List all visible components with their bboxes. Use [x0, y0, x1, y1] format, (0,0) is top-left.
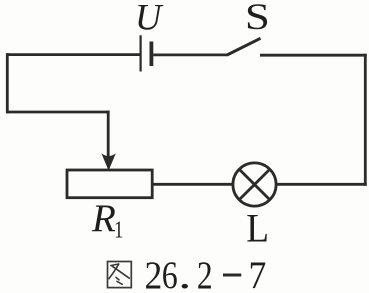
- svg-text:1: 1: [114, 216, 123, 243]
- wire left vertical: [6, 53, 9, 113]
- resistor R1 body: [67, 170, 152, 198]
- switch S blade: [227, 38, 261, 55]
- svg-text:2: 2: [145, 255, 163, 293]
- rheostat slider arrow: [101, 153, 115, 170]
- caption number 7: [249, 255, 267, 293]
- svg-text:S: S: [245, 0, 270, 37]
- wire top-left horizontal: [6, 53, 140, 56]
- label L: [246, 206, 269, 251]
- caption tu inner stroke na: [112, 266, 129, 278]
- caption number 2b: [197, 253, 213, 293]
- caption tu inner stroke pie: [109, 264, 119, 278]
- battery U long thin plate: [140, 35, 142, 71]
- caption number 6: [162, 253, 178, 293]
- caption dash: [223, 274, 241, 277]
- svg-text:2: 2: [197, 253, 213, 293]
- wire right vertical: [364, 54, 367, 186]
- wire mid-left horizontal: [6, 111, 110, 114]
- wire arrow stem vertical: [107, 111, 110, 156]
- wire R1 to lamp: [152, 183, 233, 186]
- lamp X diagonal 2: [239, 169, 270, 200]
- wire battery to switch: [153, 54, 228, 57]
- caption tu dot 2: [117, 281, 122, 284]
- label R1 subscript: [114, 216, 123, 243]
- svg-text:7: 7: [249, 255, 267, 293]
- svg-text:R: R: [91, 197, 116, 240]
- svg-text:U: U: [135, 0, 164, 38]
- caption period: [178, 254, 191, 293]
- battery U short thick plate: [149, 42, 153, 67]
- wire lamp to right: [276, 183, 367, 186]
- caption number 2: [145, 255, 163, 293]
- wire top-right horizontal: [260, 54, 367, 57]
- lamp L circle: [233, 163, 276, 206]
- caption tu inner top stroke: [111, 264, 119, 266]
- label S: [245, 0, 270, 37]
- svg-text:6: 6: [162, 253, 178, 293]
- lamp X diagonal 1: [239, 169, 270, 200]
- svg-text:.: .: [178, 254, 191, 293]
- svg-text:L: L: [246, 206, 269, 251]
- caption tu dot 1: [116, 277, 119, 280]
- caption character tu (figure) box: [108, 262, 132, 288]
